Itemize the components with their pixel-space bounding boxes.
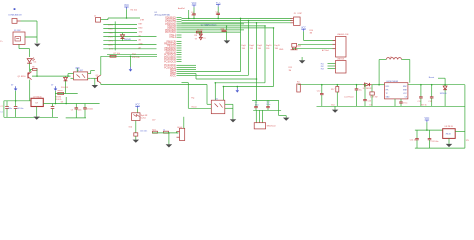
- svg-text:ATmega328P-AU: ATmega328P-AU: [155, 14, 171, 17]
- svg-text:U8 78L33: U8 78L33: [445, 126, 453, 128]
- svg-text:1N4148: 1N4148: [124, 39, 131, 41]
- svg-text:TXD: TXD: [139, 31, 143, 33]
- svg-text:PC3(ADC3): PC3(ADC3): [164, 60, 176, 63]
- svg-text:D7: D7: [370, 104, 372, 106]
- svg-text:SW-Reset: SW-Reset: [267, 125, 277, 128]
- svg-text:ICSP: ICSP: [298, 13, 303, 15]
- svg-text:U2 74AHC1G125: U2 74AHC1G125: [201, 23, 217, 26]
- svg-text:GND: GND: [279, 49, 284, 51]
- svg-text:D6: D6: [61, 101, 63, 103]
- svg-text:D5 1N5819: D5 1N5819: [363, 88, 373, 90]
- svg-text:C6 100n: C6 100n: [17, 108, 24, 110]
- svg-text:C13: C13: [368, 101, 371, 103]
- svg-text:DTR: DTR: [140, 19, 145, 21]
- svg-text:R17: R17: [331, 89, 334, 91]
- svg-text:PD7(AIN1): PD7(AIN1): [165, 31, 176, 34]
- svg-text:C8 100n: C8 100n: [86, 108, 93, 110]
- svg-text:SR5100: SR5100: [440, 93, 447, 95]
- svg-text:R15: R15: [289, 67, 292, 69]
- svg-text:zener: zener: [58, 90, 63, 92]
- svg-text:J4 HV: J4 HV: [177, 127, 183, 129]
- svg-text:R5 10k: R5 10k: [197, 30, 203, 32]
- svg-text:R6: R6: [32, 67, 34, 69]
- svg-text:RXD: RXD: [139, 27, 144, 29]
- svg-text:ACT-led: ACT-led: [322, 49, 329, 52]
- svg-text:10u: 10u: [359, 90, 362, 92]
- svg-text:AVCC: AVCC: [170, 74, 176, 77]
- svg-text:C16 10n: C16 10n: [140, 131, 147, 133]
- svg-text:C15 100n: C15 100n: [431, 141, 439, 143]
- svg-text:C17: C17: [418, 101, 421, 103]
- svg-text:Gnd: Gnd: [221, 29, 225, 31]
- svg-text:C1: C1: [0, 111, 2, 113]
- svg-text:C18: C18: [428, 101, 431, 103]
- svg-text:U3A 601-C08: U3A 601-C08: [337, 33, 348, 36]
- svg-text:AnaRef: AnaRef: [178, 7, 185, 10]
- svg-text:R12 10k: R12 10k: [132, 57, 139, 59]
- svg-text:Q1 8550: Q1 8550: [18, 76, 27, 78]
- svg-text:C14 10u: C14 10u: [410, 140, 417, 142]
- svg-text:A6: A6: [139, 39, 141, 42]
- svg-text:Gnd: Gnd: [129, 127, 133, 129]
- svg-text:R19 1k: R19 1k: [421, 104, 427, 106]
- svg-text:Boost: Boost: [429, 76, 435, 79]
- svg-text:XTAL2: XTAL2: [169, 36, 176, 39]
- svg-text:IN3: IN3: [321, 68, 324, 70]
- svg-text:78L33: 78L33: [446, 134, 451, 136]
- svg-text:D3 4V3: D3 4V3: [61, 87, 69, 89]
- svg-text:R7 10k: R7 10k: [114, 53, 120, 55]
- svg-text:1M: 1M: [310, 33, 313, 35]
- svg-text:R4 10k: R4 10k: [131, 10, 137, 12]
- svg-text:Gnd: Gnd: [331, 104, 334, 106]
- svg-text:0.3R 1W: 0.3R 1W: [370, 96, 378, 98]
- svg-text:CONN-BAT-6V: CONN-BAT-6V: [8, 14, 22, 17]
- svg-text:470u: 470u: [403, 102, 407, 104]
- svg-text:100u: 100u: [8, 108, 12, 110]
- svg-text:0.25w: 0.25w: [141, 117, 147, 119]
- svg-text:C3: C3: [71, 109, 73, 111]
- svg-text:100n: 100n: [78, 109, 82, 111]
- svg-text:C12: C12: [317, 91, 320, 93]
- svg-text:Led Power: Led Power: [344, 97, 354, 99]
- svg-text:1M: 1M: [289, 70, 292, 72]
- svg-text:Flip: Flip: [191, 98, 194, 100]
- svg-text:TX-I: TX-I: [132, 54, 136, 56]
- svg-text:C2: C2: [0, 106, 2, 108]
- svg-text:16M: 16M: [297, 45, 301, 47]
